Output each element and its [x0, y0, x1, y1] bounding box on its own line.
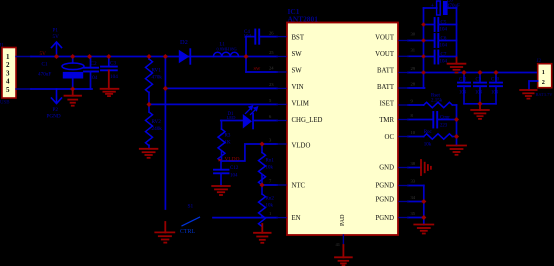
svg-text:30: 30 — [411, 32, 416, 37]
svg-text:SW: SW — [292, 51, 303, 58]
svg-text:PGND: PGND — [375, 215, 394, 222]
svg-text:EN: EN — [292, 215, 301, 222]
wire pin stubs — [277, 37, 408, 218]
wire J2 pin2 to ground — [529, 81, 538, 90]
resistor RV1 — [146, 57, 163, 105]
wire 5V to VIN and S1 vertical — [164, 57, 166, 210]
svg-text:TMR: TMR — [379, 117, 394, 124]
capacitor C2 — [84, 57, 98, 90]
svg-text:38: 38 — [411, 161, 416, 166]
svg-text:VLDO: VLDO — [225, 157, 240, 163]
resistor Rset — [424, 94, 457, 108]
capacitor C8 electrolytic — [424, 0, 461, 15]
wire BATT1 to J2 — [408, 72, 538, 74]
node PGND2 — [421, 199, 426, 204]
svg-text:35: 35 — [411, 211, 416, 216]
ground under PAD — [335, 245, 352, 265]
svg-text:C3: C3 — [110, 61, 116, 67]
svg-text:ISET: ISET — [380, 100, 395, 107]
svg-text:PAD: PAD — [340, 214, 346, 226]
ground at J2 — [520, 90, 536, 99]
capacitor C11 — [458, 73, 470, 104]
capacitor C7 — [424, 51, 457, 65]
svg-text:J2: J2 — [537, 58, 542, 64]
ground under RV2 — [140, 149, 158, 158]
node C3 top — [106, 54, 111, 59]
ground under C3 — [101, 70, 119, 96]
wire SW2 to pin — [246, 71, 277, 73]
node TMR — [454, 117, 459, 122]
ground under cap bus — [448, 58, 466, 73]
wire VOUT/BATT bus vertical — [423, 8, 425, 88]
wire EN — [213, 217, 277, 219]
svg-text:104: 104 — [440, 60, 448, 65]
svg-text:470k: 470k — [152, 75, 163, 81]
svg-text:ANT2801: ANT2801 — [288, 15, 319, 24]
svg-text:470uF: 470uF — [447, 4, 460, 9]
node VLIM divider — [146, 102, 151, 107]
svg-text:31: 31 — [411, 48, 416, 53]
svg-text:104: 104 — [90, 75, 98, 81]
node NTC — [259, 182, 264, 187]
IC U1 ANT2801 — [287, 23, 398, 236]
svg-text:10k: 10k — [266, 166, 274, 171]
svg-text:+: + — [431, 3, 435, 10]
power port P1 5V — [52, 42, 62, 57]
power port P2 PGND (down arrow) — [52, 89, 62, 104]
svg-text:PGND: PGND — [375, 197, 394, 204]
capacitor Ctmr — [433, 112, 456, 129]
svg-text:Rn1: Rn1 — [266, 159, 275, 164]
svg-text:BATT: BATT — [377, 84, 395, 91]
node SW/L1 — [243, 54, 248, 59]
svg-text:33: 33 — [411, 179, 416, 184]
svg-text:J1: J1 — [0, 43, 4, 49]
svg-text:Ctmr: Ctmr — [440, 115, 450, 120]
node bus dots — [421, 22, 426, 75]
svg-text:5V: 5V — [53, 34, 60, 40]
ground under ISET vertical — [447, 146, 466, 155]
wire ISET/TMR/OC vertical — [456, 105, 458, 146]
svg-text:VOUT: VOUT — [375, 34, 395, 41]
svg-text:VLDO: VLDO — [292, 142, 311, 149]
svg-text:P2: P2 — [53, 107, 59, 113]
wire SW vertical — [245, 37, 247, 72]
svg-text:104: 104 — [230, 174, 238, 179]
svg-text:CTRL: CTRL — [180, 229, 195, 235]
capacitor C10 — [490, 73, 502, 104]
wire PGND1 — [408, 185, 424, 187]
svg-text:VIN: VIN — [292, 84, 304, 91]
svg-text:BATT: BATT — [377, 67, 395, 74]
svg-text:R3: R3 — [225, 134, 231, 139]
ground under EN wire — [254, 224, 271, 243]
svg-text:PGND: PGND — [47, 114, 61, 120]
wire VLDO L-shape — [222, 144, 278, 161]
ground under PGND — [414, 225, 433, 234]
node C1 top — [70, 54, 75, 59]
svg-text:C8: C8 — [447, 0, 453, 4]
svg-text:104: 104 — [491, 91, 499, 96]
svg-text:10k: 10k — [266, 204, 274, 209]
svg-text:41: 41 — [336, 242, 341, 247]
svg-text:10: 10 — [411, 130, 416, 135]
svg-text:C5: C5 — [441, 21, 447, 26]
connector J1 — [0, 43, 16, 106]
wire PGND vertical — [423, 186, 425, 225]
svg-text:104: 104 — [244, 34, 252, 39]
svg-text:104: 104 — [459, 91, 467, 96]
svg-text:C11: C11 — [459, 78, 467, 83]
svg-text:24: 24 — [269, 66, 274, 71]
connector J2 — [536, 58, 554, 97]
svg-text:P1: P1 — [53, 28, 59, 34]
svg-text:104: 104 — [440, 28, 448, 33]
svg-text:OC: OC — [385, 134, 395, 141]
node VIN — [163, 86, 168, 91]
wire TMR — [408, 119, 433, 121]
ground under C12 — [212, 186, 230, 195]
svg-text:28: 28 — [411, 82, 416, 87]
capacitor C5 — [424, 18, 457, 33]
svg-text:SW: SW — [254, 66, 262, 71]
resistor Rn2 — [259, 185, 275, 226]
svg-text:BST: BST — [292, 34, 305, 41]
svg-text:0.8MH18G: 0.8MH18G — [217, 47, 238, 52]
svg-text:Rn2: Rn2 — [266, 197, 275, 202]
PAD pin wire — [342, 235, 344, 246]
node PGND3 — [421, 215, 426, 220]
wire 5V bus from J1 pin1 to IC SW — [16, 56, 31, 58]
svg-text:RV2: RV2 — [152, 119, 162, 125]
wire PGND3 — [408, 217, 424, 219]
capacitor C6 — [424, 34, 457, 49]
svg-text:USB: USB — [0, 101, 10, 106]
svg-text:104: 104 — [475, 91, 483, 96]
net label VLDO — [219, 159, 223, 162]
svg-text:VOUT: VOUT — [375, 51, 395, 58]
svg-text:C6: C6 — [441, 37, 447, 42]
svg-text:C7: C7 — [441, 53, 447, 58]
wire PGND bus from J1 pin5 — [16, 88, 31, 90]
svg-text:240k: 240k — [152, 126, 163, 132]
svg-text:NTC: NTC — [292, 182, 306, 189]
node VLDO/R4 — [259, 141, 264, 146]
pin numbers left — [269, 31, 274, 217]
svg-text:10k: 10k — [424, 142, 432, 147]
wire VOUT1 — [408, 40, 424, 42]
svg-text:5V: 5V — [40, 51, 47, 57]
node caps bottom — [477, 101, 482, 106]
diode D2 — [179, 39, 191, 65]
wire PGND2 — [408, 201, 424, 203]
wire VIN — [165, 87, 277, 89]
svg-text:104: 104 — [440, 44, 448, 49]
ground under C1 — [65, 89, 82, 106]
inductor L1 — [213, 43, 238, 57]
ground under S1 — [155, 222, 174, 243]
pin numbers right — [336, 32, 416, 248]
resistor Rn1 — [259, 144, 275, 185]
svg-text:23: 23 — [269, 82, 274, 87]
node OC — [454, 134, 459, 139]
wire VLIM — [149, 103, 277, 105]
svg-text:29: 29 — [411, 66, 416, 71]
svg-text:2.15k: 2.15k — [431, 99, 443, 104]
node C2 top — [87, 54, 92, 59]
svg-text:C2: C2 — [91, 61, 97, 67]
node C9 top — [477, 70, 482, 75]
capacitor C1 electrolytic — [38, 57, 84, 90]
node C1 bottom — [70, 86, 75, 91]
svg-text:3: 3 — [6, 69, 10, 77]
ground under caps bottom — [471, 104, 489, 119]
wire OC — [408, 136, 424, 138]
node RV1 top — [146, 54, 151, 59]
node 5V/P1 — [54, 54, 59, 59]
wire caps bottom bus — [464, 103, 496, 105]
ground sideways at GND — [421, 160, 431, 175]
svg-text:26: 26 — [269, 31, 274, 36]
svg-text:2: 2 — [6, 61, 10, 69]
LED D1 — [221, 106, 277, 129]
resistor Roc — [424, 130, 457, 147]
svg-text:223: 223 — [440, 124, 448, 129]
svg-text:470uF: 470uF — [38, 72, 51, 78]
svg-text:4: 4 — [6, 78, 10, 86]
svg-text:C10: C10 — [491, 78, 500, 83]
wire ISET — [408, 104, 424, 106]
svg-text:2: 2 — [542, 79, 545, 86]
svg-text:D2: D2 — [180, 39, 188, 46]
capacitor C4 (BST) — [244, 30, 278, 44]
switch S1 — [180, 204, 200, 236]
svg-text:PGND: PGND — [375, 182, 394, 189]
node C11 top — [461, 70, 466, 75]
svg-text:CHG_LED: CHG_LED — [292, 117, 323, 124]
wire NTC — [262, 184, 277, 186]
wire GND pin — [408, 167, 421, 169]
svg-text:C9: C9 — [476, 78, 482, 83]
svg-text:RV1: RV1 — [152, 68, 162, 74]
svg-text:LED: LED — [227, 115, 237, 120]
capacitor C12 — [214, 161, 239, 186]
node C10 top — [493, 70, 498, 75]
svg-text:S1: S1 — [188, 204, 194, 210]
wire BATT2 jog — [408, 87, 425, 89]
wire VOUT2 — [408, 55, 424, 57]
capacitor C9 — [474, 73, 486, 104]
resistor RV2 — [146, 104, 163, 148]
svg-text:104: 104 — [110, 74, 118, 80]
svg-text:1: 1 — [542, 69, 545, 76]
svg-text:GND: GND — [379, 165, 394, 172]
svg-text:34: 34 — [411, 195, 416, 200]
capacitor C3 — [101, 57, 118, 80]
node 5V/vertical — [163, 54, 168, 59]
wire right cap bus — [456, 8, 458, 58]
svg-text:VLIM: VLIM — [292, 100, 309, 107]
svg-text:SW: SW — [292, 67, 303, 74]
svg-text:1: 1 — [6, 53, 10, 61]
svg-text:BAT3.7V: BAT3.7V — [536, 92, 554, 97]
resistor R3 — [218, 121, 231, 162]
svg-text:25: 25 — [269, 50, 274, 55]
svg-text:1K: 1K — [225, 141, 232, 146]
svg-text:5: 5 — [6, 86, 10, 94]
svg-text:C1: C1 — [42, 62, 48, 68]
svg-text:C12: C12 — [230, 166, 239, 171]
svg-text:Roc: Roc — [424, 130, 433, 135]
